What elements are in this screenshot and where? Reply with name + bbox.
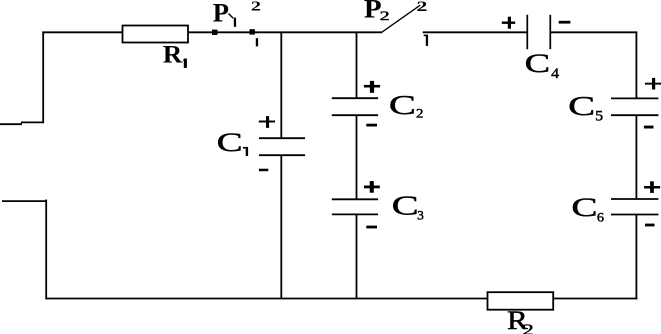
label C6: [571, 193, 604, 224]
label - (C1): [259, 169, 268, 172]
label C3: [392, 191, 424, 222]
wire C5 to C6: [635, 115, 637, 199]
resistor R1: [123, 26, 189, 43]
capacitor C3 plates: [332, 199, 378, 214]
wire P2 contact to C4: [423, 31, 528, 33]
switch P2 lever: [382, 5, 421, 32]
wire C6 to bottom-right corner: [635, 215, 637, 300]
capacitor C1 plates: [259, 138, 305, 155]
label + (C5): [645, 78, 661, 90]
svg-text:2: 2: [416, 107, 423, 121]
svg-text:R: R: [163, 40, 184, 68]
label P1: [213, 0, 236, 28]
wire C1 branch upper: [280, 32, 282, 139]
wire C3 branch lower: [356, 214, 358, 298]
label 1 (P1 lower position): [256, 38, 258, 46]
wire bottom-left vertical: [45, 200, 47, 300]
label - (C6): [645, 224, 655, 227]
svg-text:3: 3: [417, 209, 424, 223]
label + (C4): [502, 17, 515, 29]
label + (C2): [364, 81, 380, 93]
svg-text:P: P: [213, 0, 229, 28]
svg-text:2: 2: [251, 0, 261, 14]
wire right vertical to C5: [635, 32, 637, 99]
svg-text:C: C: [217, 128, 243, 157]
svg-text:2: 2: [380, 9, 390, 24]
label C4: [525, 50, 560, 82]
wire C2 to C3: [356, 115, 358, 199]
wire C1 branch lower: [280, 155, 282, 298]
switch P1 contact square left: [212, 30, 217, 35]
wire R1 to P2 pole: [188, 31, 382, 33]
label - (C2): [366, 124, 377, 127]
label C2: [389, 90, 424, 121]
capacitor C2 plates: [332, 98, 378, 115]
label + (C3): [364, 181, 380, 193]
svg-text:2: 2: [522, 322, 534, 334]
label + (C6): [644, 181, 660, 193]
label 1 (P2 contact): [424, 35, 428, 46]
wire bottom right of R2: [553, 298, 637, 300]
capacitor C4 plates: [527, 15, 550, 49]
svg-text:C: C: [392, 191, 419, 221]
wire bottom left of R2: [46, 298, 488, 300]
switch P1 contact square right: [250, 29, 255, 34]
svg-text:C: C: [568, 92, 595, 122]
wire C4 to right corner: [550, 31, 637, 33]
label + (C1): [259, 116, 275, 128]
label P2: [364, 0, 390, 23]
label - (C4): [559, 21, 571, 24]
svg-text:C: C: [571, 193, 597, 222]
svg-text:C: C: [525, 50, 550, 79]
wire top-left terminal: [0, 122, 44, 124]
label C5: [568, 92, 603, 125]
label - (C5): [644, 126, 654, 129]
svg-text:C: C: [389, 90, 416, 120]
wire bottom-left terminal: [2, 200, 47, 202]
wire C2/C3 branch upper: [356, 32, 358, 99]
capacitor C6 plates: [611, 199, 658, 215]
svg-text:4: 4: [551, 66, 559, 82]
wire top left of R1: [42, 31, 122, 33]
svg-text:6: 6: [597, 210, 604, 224]
resistor R2: [488, 292, 554, 310]
label C1: [217, 128, 248, 157]
svg-text:5: 5: [595, 108, 603, 124]
label R2: [507, 306, 534, 334]
capacitor C5 plates: [611, 98, 658, 115]
svg-text:2: 2: [417, 0, 428, 14]
label - (C3): [366, 226, 377, 229]
wire left vertical: [42, 32, 44, 123]
label R1: [163, 40, 187, 68]
